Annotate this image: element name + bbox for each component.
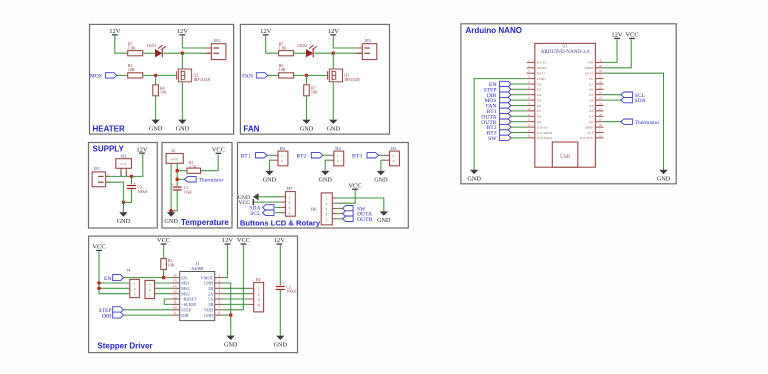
svg-text:2: 2 xyxy=(149,288,151,292)
flag EN xyxy=(489,81,511,88)
junction xyxy=(332,51,336,55)
svg-text:D13/SCK: D13/SCK xyxy=(580,136,594,140)
svg-text:GND: GND xyxy=(374,177,388,184)
wire VCC to H7 xyxy=(254,201,281,203)
ground xyxy=(374,171,388,184)
wire 1B to H1 xyxy=(223,303,250,305)
connector H2 xyxy=(116,153,132,172)
svg-text:RST1: RST1 xyxy=(537,72,545,76)
wire H4 pin2 to ground xyxy=(325,160,330,171)
svg-text:12V: 12V xyxy=(109,28,121,35)
wire BT2 to H4 xyxy=(323,154,330,156)
svg-text:GND: GND xyxy=(327,125,341,132)
wire LED to junction xyxy=(164,52,183,54)
supply VCC xyxy=(625,32,638,40)
svg-text:3: 3 xyxy=(134,292,136,296)
wire 12V to VIN xyxy=(604,39,618,62)
connector H3 xyxy=(274,146,288,166)
connector JP3 xyxy=(357,38,377,60)
svg-text:8: 8 xyxy=(218,311,220,315)
wire C1 to ground xyxy=(171,190,177,211)
supply 12V for C2 xyxy=(274,237,286,245)
junction xyxy=(175,169,179,173)
svg-text:BT1: BT1 xyxy=(241,153,251,159)
section box Buttons LCD & Rotary xyxy=(238,143,409,229)
junction xyxy=(162,276,166,280)
resistor R5 1.8K xyxy=(279,41,294,56)
svg-text:VCC: VCC xyxy=(212,147,225,154)
section box Temperature xyxy=(162,143,232,229)
wire resistor to LED xyxy=(294,52,306,54)
svg-text:5: 5 xyxy=(326,217,328,221)
USB connector box xyxy=(552,142,578,167)
svg-text:IRFZ44N: IRFZ44N xyxy=(344,77,360,82)
transistor Q1 IRFZ44N xyxy=(328,69,360,82)
wire GND1 to ground xyxy=(474,79,527,170)
wire to thermistor flag xyxy=(177,178,184,180)
section box SUPPLY xyxy=(89,143,158,229)
wire 2A to H1 xyxy=(223,293,250,295)
flag BT3 xyxy=(487,130,512,137)
svg-text:2: 2 xyxy=(258,292,260,297)
flag OUTA xyxy=(337,211,372,218)
svg-text:A0: A0 xyxy=(589,120,593,124)
junction xyxy=(97,287,101,291)
junction xyxy=(97,281,101,285)
svg-text:12V: 12V xyxy=(260,28,272,35)
ground xyxy=(117,212,131,225)
wire junction to JP pin2 xyxy=(182,52,211,54)
flag EN xyxy=(104,275,123,282)
flag STEP xyxy=(483,87,511,94)
svg-text:1: 1 xyxy=(289,196,291,200)
svg-text:VCC: VCC xyxy=(92,244,105,251)
wire J4 to MS2 xyxy=(155,287,172,289)
wire VCC to R1 xyxy=(201,154,219,170)
svg-text:9: 9 xyxy=(174,311,176,315)
svg-text:~RESET: ~RESET xyxy=(181,297,197,302)
svg-text:10K: 10K xyxy=(160,90,167,95)
wire flag to resistor xyxy=(268,74,279,76)
wire VCC to R2 xyxy=(163,245,165,259)
ground xyxy=(300,120,314,133)
section title HEATER xyxy=(93,124,126,133)
wire J4 to MS1 xyxy=(155,282,172,284)
svg-text:D9: D9 xyxy=(537,120,541,124)
svg-text:2: 2 xyxy=(134,287,136,291)
svg-text:GND: GND xyxy=(657,176,671,183)
svg-text:4: 4 xyxy=(289,212,291,216)
ground xyxy=(467,170,481,183)
svg-text:USB: USB xyxy=(560,154,571,160)
junction xyxy=(122,201,126,205)
section box HEATER xyxy=(90,24,234,134)
flag Thermistor xyxy=(621,119,660,126)
svg-text:2: 2 xyxy=(218,279,220,283)
ground xyxy=(176,120,190,133)
supply 12V #2 xyxy=(177,28,189,36)
svg-text:VCC: VCC xyxy=(348,182,361,189)
wire thermistor conn pins xyxy=(171,163,177,211)
svg-text:A1: A1 xyxy=(589,115,593,119)
IC U1 ARDUINO-NANO-3.0 xyxy=(527,43,604,167)
svg-text:6: 6 xyxy=(218,301,220,305)
svg-text:3: 3 xyxy=(149,283,151,287)
svg-text:H6: H6 xyxy=(311,207,317,212)
svg-text:J2: J2 xyxy=(171,148,175,153)
svg-text:A2: A2 xyxy=(589,109,593,113)
svg-text:A7: A7 xyxy=(589,82,593,86)
svg-text:VCC: VCC xyxy=(157,237,170,244)
flag SW xyxy=(337,206,366,213)
flag SCL xyxy=(250,210,274,217)
wire C2 to ground xyxy=(279,290,281,336)
svg-text:Buttons LCD & Rotary: Buttons LCD & Rotary xyxy=(240,219,321,228)
svg-text:1.8K: 1.8K xyxy=(279,46,287,51)
svg-text:LED1: LED1 xyxy=(147,43,157,48)
svg-text:Thermistor: Thermistor xyxy=(635,120,660,126)
resistor R7 10K xyxy=(304,75,318,95)
wire 1A to H1 xyxy=(223,298,250,300)
svg-text:U1: U1 xyxy=(562,44,568,49)
svg-text:GND: GND xyxy=(467,176,481,183)
svg-text:10K: 10K xyxy=(168,263,175,268)
svg-text:GND: GND xyxy=(300,125,314,132)
section title FAN xyxy=(243,124,259,133)
wire GND to H7 xyxy=(259,196,282,198)
flag STEP xyxy=(98,307,123,314)
wire A4 to SDA xyxy=(604,99,621,101)
svg-text:HEATER: HEATER xyxy=(93,124,126,133)
svg-text:3: 3 xyxy=(218,285,220,289)
svg-text:10uF: 10uF xyxy=(184,190,193,195)
svg-text:H2: H2 xyxy=(121,153,127,158)
flag MOS xyxy=(484,97,511,104)
svg-text:VDD: VDD xyxy=(204,308,213,313)
svg-text:H5: H5 xyxy=(391,146,397,151)
connector H7 xyxy=(281,186,295,216)
svg-text:D8: D8 xyxy=(537,115,541,119)
svg-text:GND: GND xyxy=(204,281,213,286)
wire EN to U1 xyxy=(511,83,527,85)
svg-text:D12/MISO: D12/MISO xyxy=(537,136,553,140)
flag OUTA xyxy=(481,114,511,121)
input flag BT2 xyxy=(296,153,322,160)
supply VCC for VDD xyxy=(237,237,250,245)
junction xyxy=(181,51,185,55)
svg-text:GND: GND xyxy=(204,313,213,318)
svg-text:1: 1 xyxy=(326,197,328,201)
wire SCL to H7 xyxy=(275,212,281,214)
wire 12V to resistor row xyxy=(115,36,128,53)
junction xyxy=(154,74,158,78)
connector H6 xyxy=(311,193,337,225)
svg-text:2B: 2B xyxy=(208,286,213,291)
flag BT2 xyxy=(487,124,512,131)
wire H5 pin2 to ground xyxy=(381,160,386,171)
wire R2 to EN net xyxy=(163,270,165,278)
svg-text:4: 4 xyxy=(218,290,220,294)
wire A5 to SCL xyxy=(604,94,621,96)
svg-text:OUTB: OUTB xyxy=(357,217,372,223)
section title Temperature xyxy=(181,218,229,227)
svg-text:12: 12 xyxy=(173,295,177,299)
svg-text:12V: 12V xyxy=(136,146,148,153)
wire DIR to A4988 xyxy=(123,314,171,316)
connector H5 xyxy=(386,146,400,166)
wire OUTA to U1 xyxy=(511,115,527,117)
svg-text:D5: D5 xyxy=(537,98,541,102)
connector JP2 xyxy=(206,38,226,60)
svg-text:2: 2 xyxy=(281,159,283,163)
svg-text:3: 3 xyxy=(258,297,260,302)
svg-text:int fly: int fly xyxy=(172,158,179,161)
svg-text:2: 2 xyxy=(393,159,395,163)
LED LED2 xyxy=(297,43,316,58)
section title Stepper Driver xyxy=(97,342,152,351)
capacitor C3 100uF xyxy=(127,176,149,194)
svg-text:1: 1 xyxy=(393,154,395,158)
supply VCC xyxy=(212,147,225,155)
wire resistor to gate xyxy=(143,74,177,76)
wire 12V to C2 xyxy=(279,245,281,285)
wire JP1 pin1 row xyxy=(106,154,143,177)
svg-text:D3: D3 xyxy=(537,88,541,92)
section title SUPPLY xyxy=(93,144,125,153)
svg-text:D10/SS: D10/SS xyxy=(537,125,548,129)
svg-text:DIR: DIR xyxy=(181,313,189,318)
flag DIR xyxy=(102,312,124,319)
svg-text:H4: H4 xyxy=(335,146,341,151)
svg-text:1B: 1B xyxy=(208,302,213,307)
svg-text:7: 7 xyxy=(218,306,220,310)
svg-text:int fly: int fly xyxy=(120,163,127,166)
wire RST2 row to ground xyxy=(604,73,664,170)
connector H1 xyxy=(250,277,264,312)
svg-text:3V3: 3V3 xyxy=(587,131,593,135)
wire resistor to ground xyxy=(306,96,308,120)
wire BT1 to H3 xyxy=(267,154,274,156)
svg-text:A4988: A4988 xyxy=(191,266,204,271)
wire FAN to U1 xyxy=(511,105,527,107)
flag SDA xyxy=(249,205,274,212)
svg-text:GND: GND xyxy=(318,177,332,184)
wire BT1 to U1 xyxy=(511,110,527,112)
net label VCC xyxy=(238,199,254,206)
supply 12V xyxy=(136,146,148,154)
svg-text:SDA: SDA xyxy=(635,98,646,104)
svg-text:MS1: MS1 xyxy=(181,281,189,286)
ground xyxy=(318,171,332,184)
wire 12V to JP pin1 xyxy=(182,36,211,48)
svg-text:D2: D2 xyxy=(537,82,541,86)
ground xyxy=(164,212,178,225)
svg-text:EN: EN xyxy=(181,275,187,280)
svg-text:Thermistor: Thermistor xyxy=(199,177,224,183)
svg-text:JP3: JP3 xyxy=(364,38,371,43)
wire GND pin2 to ground xyxy=(223,283,231,336)
flag OUTB xyxy=(337,216,372,223)
wire resistor to ground xyxy=(155,96,157,120)
svg-text:EN: EN xyxy=(104,276,111,282)
wire J4 to MS3 xyxy=(155,293,172,295)
svg-text:D6: D6 xyxy=(537,104,541,108)
wire C3 to ground rail xyxy=(123,189,131,203)
svg-text:11: 11 xyxy=(173,301,177,305)
flag Thermistor xyxy=(185,177,224,184)
svg-text:LED2: LED2 xyxy=(297,43,307,48)
svg-text:15: 15 xyxy=(173,279,177,283)
svg-text:GND: GND xyxy=(224,341,238,348)
resistor R4 10K xyxy=(153,75,167,95)
ground xyxy=(149,120,163,133)
svg-text:13: 13 xyxy=(173,290,177,294)
svg-text:A5: A5 xyxy=(589,93,593,97)
wire drain xyxy=(332,53,334,68)
svg-text:Temperature: Temperature xyxy=(181,218,229,227)
svg-text:GND: GND xyxy=(117,218,131,225)
svg-text:10R: 10R xyxy=(128,67,135,72)
connector J4 block A xyxy=(126,267,139,297)
svg-text:12V: 12V xyxy=(177,28,189,35)
input flag FAN xyxy=(242,73,268,80)
junction xyxy=(229,313,233,317)
transistor Q2 IRF-Z44N xyxy=(177,69,211,82)
wire MOS to U1 xyxy=(511,99,527,101)
wire SDA to H7 xyxy=(275,206,281,208)
flag FAN xyxy=(486,103,511,110)
svg-text:5V: 5V xyxy=(589,77,594,81)
supply 12V xyxy=(611,32,623,40)
svg-text:14: 14 xyxy=(173,285,177,289)
junction xyxy=(175,178,179,182)
svg-text:~SLEEP: ~SLEEP xyxy=(181,302,197,307)
svg-text:SCL: SCL xyxy=(250,211,261,217)
svg-text:SW: SW xyxy=(488,136,497,142)
wire EN to A4988 xyxy=(123,277,171,279)
wire GND pin8 xyxy=(223,314,231,316)
wire 12V to resistor row xyxy=(266,36,279,53)
svg-text:GND: GND xyxy=(149,125,163,132)
resistor R1 4.7K xyxy=(187,160,201,173)
svg-text:STEP: STEP xyxy=(181,308,192,313)
svg-text:VCC: VCC xyxy=(237,237,250,244)
svg-text:D7: D7 xyxy=(537,109,541,113)
wire BT3 to H5 xyxy=(379,154,386,156)
supply 12V #1 xyxy=(109,28,121,36)
svg-text:BT3: BT3 xyxy=(352,153,362,159)
svg-text:Stepper Driver: Stepper Driver xyxy=(97,342,152,351)
svg-text:3: 3 xyxy=(326,207,328,211)
svg-text:100uF: 100uF xyxy=(138,189,149,194)
wire RESET-SLEEP link xyxy=(164,299,171,304)
svg-text:JP1: JP1 xyxy=(94,166,101,171)
wire VCC to H6 pin2 xyxy=(337,190,355,203)
svg-text:GND: GND xyxy=(377,217,391,224)
svg-text:Arduino NANO: Arduino NANO xyxy=(466,26,522,35)
wire resistor to gate xyxy=(294,74,328,76)
svg-text:1: 1 xyxy=(134,282,136,286)
svg-text:VIN: VIN xyxy=(587,61,594,65)
svg-text:4.7K: 4.7K xyxy=(189,164,197,169)
svg-text:12V: 12V xyxy=(222,237,234,244)
svg-text:GND1: GND1 xyxy=(537,77,546,81)
wire flag to resistor xyxy=(117,74,128,76)
resistor R2 10K xyxy=(161,258,175,269)
svg-text:1: 1 xyxy=(337,154,339,158)
flag SCL xyxy=(621,92,645,99)
svg-text:10K: 10K xyxy=(311,90,318,95)
svg-text:FAN: FAN xyxy=(243,124,259,133)
ground xyxy=(224,336,238,349)
svg-text:1: 1 xyxy=(149,293,151,297)
section box Arduino NANO xyxy=(461,24,676,184)
connector JP1 xyxy=(92,166,111,187)
wire VDD to VCC xyxy=(223,245,244,310)
svg-text:1: 1 xyxy=(258,286,260,291)
svg-text:100uF: 100uF xyxy=(286,289,297,294)
junction xyxy=(169,209,173,213)
svg-text:1: 1 xyxy=(281,154,283,158)
input flag MOS xyxy=(90,73,117,80)
wire VCC J4 pin2 xyxy=(99,287,129,289)
wire A0 to Thermistor xyxy=(604,121,621,123)
svg-text:D11/MOSI: D11/MOSI xyxy=(537,131,553,135)
input flag BT1 xyxy=(241,153,267,160)
svg-text:MOS: MOS xyxy=(90,73,102,79)
svg-text:2A: 2A xyxy=(208,291,214,296)
svg-text:VCC: VCC xyxy=(625,32,638,39)
svg-text:1A: 1A xyxy=(208,297,214,302)
capacitor C2 100uF xyxy=(276,281,298,294)
junction C3 tee xyxy=(130,175,134,179)
section box FAN xyxy=(240,24,389,134)
supply VCC left xyxy=(92,244,105,252)
wire resistor to LED xyxy=(143,52,155,54)
wire 2B to H1 xyxy=(223,287,250,289)
section box Stepper Driver xyxy=(89,236,298,353)
svg-text:2: 2 xyxy=(289,201,291,205)
flag SDA xyxy=(621,97,646,104)
svg-text:DIR: DIR xyxy=(102,313,112,319)
wire H3 pin2 to ground xyxy=(269,160,274,171)
resistor R5 1.8K xyxy=(128,41,143,56)
svg-text:H1: H1 xyxy=(256,277,262,282)
supply 12V #2 xyxy=(328,28,340,36)
wire VMOT to 12V xyxy=(223,245,228,278)
svg-text:RST2: RST2 xyxy=(585,72,593,76)
wire BT3 to U1 xyxy=(511,132,527,134)
wire VCC to GND2 row xyxy=(604,39,632,67)
section title Buttons LCD & Rotary xyxy=(240,219,321,228)
ground xyxy=(263,171,277,184)
junction xyxy=(305,74,309,78)
LED LED1 xyxy=(147,43,166,58)
wire VCC to J4 pins xyxy=(99,251,129,293)
resistor R3 10R xyxy=(128,63,143,78)
svg-text:BT2: BT2 xyxy=(296,153,306,159)
wire JP1 pin2 to ground xyxy=(106,182,124,212)
svg-text:12V: 12V xyxy=(328,28,340,35)
svg-text:16: 16 xyxy=(173,274,177,278)
wire H2 pins down xyxy=(121,172,126,176)
svg-text:2: 2 xyxy=(337,159,339,163)
svg-text:3: 3 xyxy=(289,206,291,210)
svg-text:MS2: MS2 xyxy=(181,286,189,291)
svg-text:GND: GND xyxy=(263,177,277,184)
wire R1 to divider node xyxy=(177,170,187,172)
net label GND xyxy=(238,193,259,201)
